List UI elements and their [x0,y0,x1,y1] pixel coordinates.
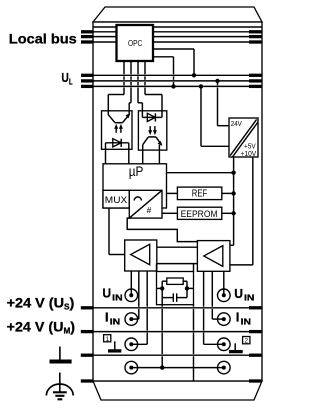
wire A2 to terminal IIN right [211,271,213,306]
wire A1 to terminal IIN left [138,271,140,307]
ground symbol right row [234,343,236,350]
left rail stubs [81,306,94,309]
UL left connector stubs [81,74,94,77]
phototransistor of U1 [115,122,123,124]
junction +5V to REF [231,191,235,195]
wire A2 to shield terminal right [203,271,205,306]
terminal UIN right [218,289,231,302]
svg-text:EEPROM: EEPROM [181,209,218,219]
wire ends into terminals [130,289,132,295]
U2 pins to microprocessor [142,145,144,164]
wire OPC pin1 to left optocoupler collector [123,61,125,74]
svg-text:24V: 24V [231,121,242,128]
node left of RC [157,287,163,289]
phototransistor of U2 [148,136,156,138]
junction on UL line 1 [192,73,196,77]
svg-text:2: 2 [245,338,249,345]
wire microprocessor to REF [167,192,178,194]
amplifier A1 box [125,240,157,271]
+5V rail from converter [233,157,235,245]
RC filter screen box [156,264,158,272]
wire A1 to shield terminal left [146,271,148,307]
wire A/D to EEPROM [162,212,177,214]
wire RC box to FE (frame bottom) [193,305,195,307]
svg-text:#: # [147,205,152,215]
wire A2 to terminal UIN right [223,271,225,295]
svg-text:MUX: MUX [105,195,127,205]
svg-text:IN: IN [110,317,120,327]
resistor R1 [161,281,163,288]
wire OPC to UL line 1 [153,48,194,50]
svg-text:+10V: +10V [241,151,257,158]
local bus left connector stubs [81,30,94,33]
terminal bottom left [125,361,138,374]
junction shield [160,365,164,369]
optocoupler U1 (data in) box [102,111,133,150]
junction on UL line 2 [215,79,219,83]
UL supply line 3 [93,85,262,87]
amplifier A2 triangle [204,246,223,267]
module housing top face [93,7,262,22]
LED of U2 [142,116,162,118]
svg-text:Local bus: Local bus [9,31,77,47]
U1 pins to microprocessor [105,143,107,164]
amplifier A2 box [197,241,230,272]
wire REF to +5V rail [222,192,234,194]
wire OPC pin3 to right optocoupler LED anode [137,61,139,74]
local bus line 4 [93,41,262,43]
wire between amplifiers (upper) [157,246,198,248]
UL supply line 2 [93,80,262,82]
junction on UL line 3 [171,84,175,88]
wire A1 to terminal UIN left [130,271,132,295]
svg-text:REF: REF [192,188,207,200]
svg-text:U: U [61,70,68,85]
+24V US terminal rail [93,307,262,309]
numbered box 1 [104,335,111,342]
svg-text:+24 V (UM): +24 V (UM) [7,319,76,336]
svg-text:+24 V (US): +24 V (US) [7,294,75,311]
UL right connector stubs [249,74,261,77]
node right of RC [187,287,194,289]
DC/DC converter 24V to +5V/+10V [229,118,258,157]
local bus line 1 [93,26,262,28]
A/D converter box [129,190,162,218]
local bus right connector stubs [249,30,261,33]
local bus line 3 [93,36,262,38]
terminal shield right [218,338,231,351]
svg-text:I: I [105,310,109,325]
amplifier A1 triangle [131,244,150,264]
wire RC node to shield junction [161,298,163,307]
svg-text:U: U [102,286,111,301]
wire UL line 3 to 24V converter input [200,86,202,146]
capacitor C1 [161,288,163,297]
wire EEPROM to +5V rail [222,212,234,214]
microprocessor box [103,164,167,208]
junction +5V to microprocessor [231,171,235,175]
wire OPC pin2 to left optocoupler emitter [130,61,132,74]
ground symbol left row [114,341,116,350]
terminal IIN left [125,313,138,326]
wire OPC to UL line 3 [153,56,174,58]
terminal UIN left [125,289,138,302]
ground symbol outside [59,347,61,360]
earth symbol outside [59,373,61,392]
svg-text:I: I [236,309,240,324]
svg-text:µP: µP [129,164,144,179]
memory EEPROM box [177,207,221,219]
optocoupler U2 (data out) box [138,111,166,150]
reference REF box [177,187,221,200]
module housing bottom face [93,381,262,400]
wire between bottom shield terminals [131,367,224,369]
terminal IIN right [218,313,231,326]
LED of U1 [106,142,129,144]
svg-text:IN: IN [112,292,122,302]
light arrows of U2 [149,126,151,133]
+10V wire from converter to amplifier [252,157,254,265]
numbered box 2 [243,337,250,344]
light arrows of U1 [115,126,117,133]
right rail stubs [249,306,261,309]
UL supply line 1 [93,74,262,76]
wire A/D to right amplifier [127,218,197,242]
wire between amplifiers (lower) [157,263,198,265]
junction +5V to EEPROM [231,211,235,215]
terminal bottom right [218,361,231,374]
svg-text:IN: IN [244,293,254,303]
svg-text:+5V: +5V [244,144,256,151]
wire +5V rail to microprocessor [167,172,234,174]
+24V UM terminal rail [93,331,262,333]
bus protocol chip OPC [117,25,154,61]
svg-text:U: U [234,286,243,301]
junction on UL line 3 (converter) [199,84,203,88]
wire UL line 2 to 24V converter input [217,81,219,85]
shield terminal rail [93,354,262,356]
wire MUX to left amplifier [108,208,110,255]
svg-text:IN: IN [241,316,251,326]
svg-text:OPC: OPC [128,39,142,48]
module housing front face [93,22,262,381]
local bus line 2 [93,31,262,33]
terminal shield left [125,338,138,351]
svg-text:1: 1 [105,336,109,343]
svg-text:L: L [69,78,73,87]
wire OPC pin4 to right optocoupler LED cathode [144,61,146,74]
MUX box [103,190,129,208]
